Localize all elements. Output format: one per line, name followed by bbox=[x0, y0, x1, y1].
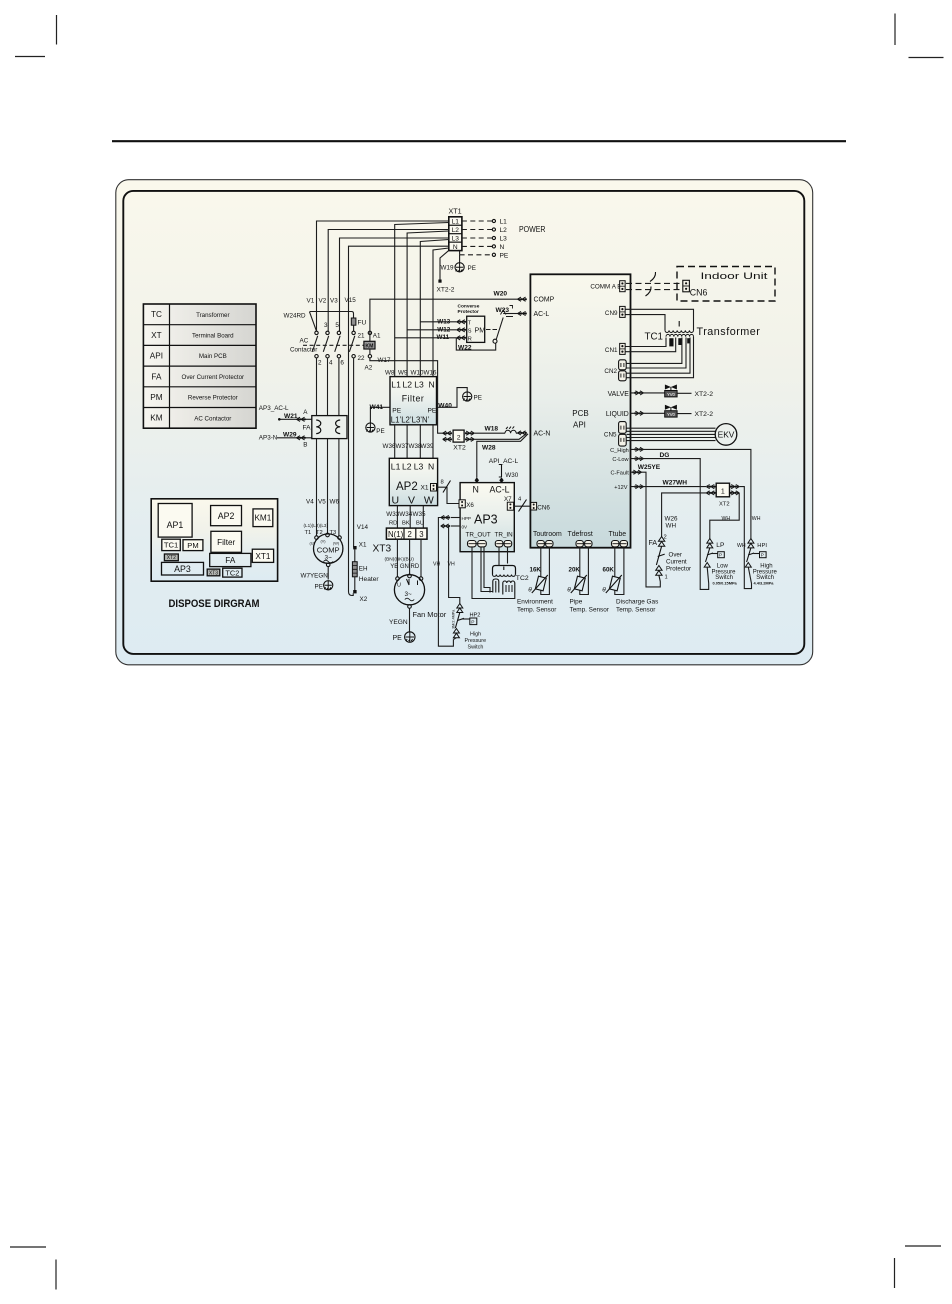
arrows C-Low bbox=[635, 457, 644, 461]
svg-text:HPI: HPI bbox=[757, 543, 767, 549]
svg-text:AP2: AP2 bbox=[218, 511, 235, 521]
svg-text:AP1: AP1 bbox=[167, 520, 184, 530]
connector CN6 on AP1 bbox=[531, 502, 537, 510]
wire fan BU bbox=[420, 539, 422, 577]
wire Tdefrost sensor loop bbox=[580, 547, 589, 595]
wire W21 bbox=[279, 418, 312, 420]
svg-text:API: API bbox=[573, 420, 586, 429]
svg-text:V14: V14 bbox=[357, 524, 369, 531]
thermistor Ttube bbox=[609, 576, 620, 591]
wire C-Fault to FA2 bbox=[630, 472, 660, 587]
svg-text:B: B bbox=[303, 442, 307, 449]
svg-text:L2: L2 bbox=[403, 380, 413, 390]
svg-text:W16: W16 bbox=[424, 370, 437, 377]
svg-text:L1: L1 bbox=[500, 219, 508, 226]
svg-text:N: N bbox=[428, 462, 434, 472]
svg-text:P: P bbox=[719, 553, 722, 558]
wire W23 to AC-L bbox=[503, 313, 517, 315]
wire XT2 to LP top bbox=[710, 493, 740, 539]
connector Ttube bbox=[612, 541, 619, 547]
wires TC1 secondary to CN1 bbox=[626, 338, 667, 347]
switch LP low pressure bbox=[707, 539, 713, 548]
svg-text:Protector: Protector bbox=[458, 309, 479, 315]
svg-text:KM1: KM1 bbox=[254, 514, 271, 523]
svg-text:1: 1 bbox=[665, 575, 668, 581]
svg-text:W24RD: W24RD bbox=[284, 313, 306, 320]
connector CN9 bbox=[620, 306, 626, 317]
svg-text:TR_IN: TR_IN bbox=[495, 532, 514, 539]
plug W30 bbox=[499, 465, 502, 478]
svg-text:XT1: XT1 bbox=[255, 552, 270, 561]
svg-text:XT: XT bbox=[151, 331, 161, 340]
svg-text:W28: W28 bbox=[482, 445, 496, 452]
connector CN6 indoor bbox=[683, 280, 690, 292]
connector X6 bbox=[459, 500, 465, 508]
wire W29 bbox=[277, 437, 312, 439]
svg-text:PE: PE bbox=[474, 395, 482, 402]
svg-text:PM: PM bbox=[187, 541, 198, 550]
arrows +12V bbox=[635, 485, 644, 489]
svg-text:V2: V2 bbox=[319, 298, 327, 305]
svg-text:Temp. Sensor: Temp. Sensor bbox=[570, 606, 610, 613]
wire Toutroom sensor left bbox=[540, 547, 542, 577]
arrows XT2 left pin1 bbox=[443, 431, 452, 435]
svg-text:WH: WH bbox=[666, 523, 677, 530]
svg-text:AP2: AP2 bbox=[396, 481, 418, 493]
arrows XT2 right pin1 bbox=[466, 431, 475, 435]
arrows XT2b out1 bbox=[731, 485, 740, 489]
slash 8 on X1 wire bbox=[443, 481, 451, 493]
svg-text:θ: θ bbox=[602, 587, 606, 594]
svg-text:XT2: XT2 bbox=[719, 501, 730, 507]
wire power L2 dashed bbox=[462, 229, 492, 231]
svg-text:C_High: C_High bbox=[610, 448, 629, 454]
svg-text:XT3: XT3 bbox=[373, 544, 392, 555]
svg-text:API_AC-L: API_AC-L bbox=[489, 458, 519, 465]
motor Fan Motor bbox=[394, 575, 424, 605]
svg-text:TR_OUT: TR_OUT bbox=[466, 532, 491, 539]
wire 0V to high pressure switch bbox=[441, 526, 460, 604]
slash 4 on X7 wire bbox=[519, 500, 527, 512]
over current protector FA2 bbox=[656, 537, 665, 582]
svg-text:AC-N: AC-N bbox=[534, 430, 551, 437]
contactor pole 6 bbox=[337, 331, 340, 334]
svg-text:Main PCB: Main PCB bbox=[199, 353, 227, 360]
svg-text:0.05/0.15MPa: 0.05/0.15MPa bbox=[713, 581, 738, 586]
pin 0V bbox=[441, 524, 450, 528]
dispose AP2 bbox=[211, 506, 242, 526]
svg-text:DG: DG bbox=[660, 452, 670, 459]
svg-text:HPP: HPP bbox=[462, 516, 471, 521]
svg-text:Temp. Sensor: Temp. Sensor bbox=[616, 606, 656, 613]
svg-text:TC1: TC1 bbox=[164, 541, 178, 550]
wire FU-21 bbox=[353, 325, 355, 331]
svg-text:Discharge Gas: Discharge Gas bbox=[616, 598, 658, 605]
svg-text:3: 3 bbox=[324, 322, 328, 329]
svg-text:COMP: COMP bbox=[534, 297, 555, 304]
svg-text:6: 6 bbox=[340, 360, 344, 367]
dispose PM bbox=[183, 540, 203, 551]
arrows XT2 left pin2 bbox=[443, 437, 452, 441]
svg-text:U V W: U V W bbox=[392, 494, 437, 506]
wire W8 L1-filter bbox=[395, 223, 449, 377]
wire power L1 dashed bbox=[462, 220, 492, 222]
wire W34 bbox=[409, 506, 411, 528]
svg-text:4.4/3.2MPa: 4.4/3.2MPa bbox=[754, 581, 775, 586]
wire W22 bbox=[456, 338, 495, 350]
pin diamonds AP3 top bbox=[475, 477, 479, 483]
wire Ttube sensor left bbox=[614, 547, 616, 577]
svg-text:TC2: TC2 bbox=[225, 568, 239, 577]
ground PE filter-right bbox=[463, 392, 472, 401]
svg-text:Tdefrost: Tdefrost bbox=[568, 531, 593, 538]
svg-text:(L1)(L2)(L3): (L1)(L2)(L3) bbox=[304, 523, 329, 528]
svg-text:W8: W8 bbox=[385, 370, 395, 377]
svg-text:Toutroom: Toutroom bbox=[533, 531, 562, 538]
crop mark bottom-right bbox=[895, 1246, 942, 1288]
svg-text:V15: V15 bbox=[345, 297, 357, 304]
svg-text:Protector: Protector bbox=[666, 566, 691, 573]
wire W11 bbox=[395, 337, 457, 339]
connector TR_IN bbox=[495, 541, 503, 547]
svg-text:YE GN RD: YE GN RD bbox=[390, 564, 420, 570]
svg-text:W35: W35 bbox=[413, 511, 426, 518]
wire W39 bbox=[432, 425, 434, 459]
wires TC1 secondary to CN2 bbox=[627, 338, 682, 364]
svg-text:W30: W30 bbox=[505, 472, 518, 479]
wire LIQUID bbox=[630, 412, 691, 414]
svg-text:W20: W20 bbox=[494, 291, 508, 298]
wire COMM A dashed bbox=[626, 282, 683, 284]
thermistor Toutroom bbox=[535, 576, 546, 591]
arrows XT2b in2 bbox=[706, 491, 715, 495]
solenoid liquid YV bbox=[665, 405, 671, 410]
wire compressor PE bbox=[327, 567, 329, 580]
svg-text:2: 2 bbox=[457, 434, 461, 441]
svg-text:PE: PE bbox=[376, 428, 384, 435]
wire XT2 pin2 diagonal bbox=[474, 434, 526, 440]
svg-text:N: N bbox=[500, 244, 505, 251]
wire W10 L3-filter bbox=[420, 240, 449, 377]
pcb AP2 bbox=[389, 458, 437, 505]
svg-text:API: API bbox=[150, 352, 163, 361]
svg-text:S: S bbox=[468, 328, 472, 334]
svg-text:W25YE: W25YE bbox=[638, 464, 661, 471]
wire W18 to AC-N bbox=[474, 432, 517, 434]
wire W37 bbox=[406, 425, 408, 459]
pressure box HP2 bbox=[470, 618, 477, 625]
wire L3 feed bbox=[340, 238, 449, 331]
svg-text:8: 8 bbox=[441, 480, 444, 486]
fuse FU bbox=[351, 318, 356, 325]
inner frame bbox=[123, 191, 804, 654]
svg-text:P: P bbox=[471, 619, 474, 625]
wires phases through FA to compressor bbox=[316, 439, 318, 536]
svg-text:Pressure: Pressure bbox=[465, 638, 487, 644]
svg-text:Terminal Board: Terminal Board bbox=[192, 332, 234, 339]
svg-text:W7YEGN: W7YEGN bbox=[301, 573, 329, 580]
wire L2 feed bbox=[328, 230, 449, 332]
terminal XT2 (2) bbox=[453, 430, 464, 442]
svg-text:CN2: CN2 bbox=[604, 368, 617, 375]
svg-text:L3: L3 bbox=[414, 462, 424, 472]
svg-text:PCB: PCB bbox=[572, 409, 588, 418]
svg-text:PE: PE bbox=[315, 583, 323, 590]
svg-text:(U): (U) bbox=[310, 542, 316, 546]
svg-text:Reverse Protector: Reverse Protector bbox=[188, 395, 238, 402]
dispose FA bbox=[210, 553, 251, 566]
ground PE filter-left bbox=[366, 423, 375, 432]
reverse protector PM bbox=[467, 316, 485, 342]
svg-text:AP3_AC-L: AP3_AC-L bbox=[259, 405, 289, 412]
wire power N dashed bbox=[462, 245, 492, 247]
wires TR_IN to TC2 bbox=[498, 547, 500, 566]
svg-text:Switch: Switch bbox=[468, 645, 484, 651]
wire fan BK bbox=[409, 539, 411, 574]
dispose XT2 bbox=[164, 554, 178, 561]
wire phase 2 down bbox=[316, 358, 318, 416]
svg-text:5: 5 bbox=[335, 322, 339, 329]
svg-text:CN5: CN5 bbox=[604, 431, 617, 438]
svg-text:XT3: XT3 bbox=[209, 570, 218, 576]
contactor coil pin A1 bbox=[368, 331, 371, 334]
svg-text:V5: V5 bbox=[318, 498, 326, 505]
pcb AP3 bbox=[460, 483, 514, 552]
thermistor Tdefrost bbox=[574, 576, 585, 591]
dispose Filter bbox=[211, 531, 242, 552]
svg-text:N: N bbox=[473, 484, 479, 494]
wire W27WH bbox=[630, 486, 706, 488]
svg-text:Heater: Heater bbox=[359, 576, 380, 583]
svg-text:P: P bbox=[761, 553, 764, 558]
node XT2-2 stub bbox=[440, 250, 449, 279]
legend table bbox=[143, 304, 256, 428]
svg-text:VH: VH bbox=[433, 562, 440, 568]
svg-text:W41: W41 bbox=[370, 404, 384, 411]
pressure box HPI bbox=[760, 552, 767, 558]
svg-text:0V: 0V bbox=[462, 524, 469, 529]
svg-text:C-Low: C-Low bbox=[612, 457, 629, 463]
svg-text:VALVE: VALVE bbox=[608, 391, 630, 398]
connector X7 bbox=[507, 502, 513, 510]
wire power L3 dashed bbox=[462, 237, 492, 239]
svg-text:21: 21 bbox=[358, 333, 366, 340]
wire fan PE bbox=[409, 608, 411, 631]
contactor pole 2 bbox=[315, 331, 318, 334]
svg-text:EH: EH bbox=[359, 565, 368, 572]
svg-text:CN6: CN6 bbox=[690, 287, 708, 297]
svg-text:3~: 3~ bbox=[405, 591, 413, 598]
svg-text:Filter: Filter bbox=[402, 394, 425, 404]
svg-text:L2: L2 bbox=[452, 227, 460, 234]
switch HP2 high pressure bbox=[457, 604, 463, 609]
svg-text:BU: BU bbox=[416, 520, 424, 526]
wire W38 bbox=[419, 425, 421, 459]
wire V14 22-X1 bbox=[353, 358, 355, 548]
svg-text:L1: L1 bbox=[391, 380, 401, 390]
svg-text:Transformer: Transformer bbox=[196, 312, 229, 319]
svg-text:W27WH: W27WH bbox=[663, 479, 688, 486]
svg-text:PE: PE bbox=[428, 408, 437, 415]
svg-text:FA: FA bbox=[225, 556, 236, 565]
connector TR_OUT bbox=[468, 541, 477, 547]
svg-text:AC-L: AC-L bbox=[490, 484, 510, 494]
svg-text:EKV: EKV bbox=[718, 430, 735, 440]
svg-text:W33: W33 bbox=[386, 511, 399, 518]
svg-text:AC Contactor: AC Contactor bbox=[194, 415, 231, 422]
svg-text:CN9: CN9 bbox=[605, 310, 618, 317]
svg-text:2: 2 bbox=[408, 530, 412, 539]
wire W40 bbox=[437, 388, 468, 408]
terminal XT2 right bbox=[716, 483, 729, 497]
svg-text:COMM A B: COMM A B bbox=[590, 284, 621, 291]
svg-text:XT2-2: XT2-2 bbox=[695, 391, 714, 398]
wire phase 6 down bbox=[338, 358, 340, 416]
svg-text:VH: VH bbox=[448, 562, 455, 568]
break marks on COMM wires bbox=[646, 272, 656, 296]
crop mark bottom-left bbox=[10, 1247, 56, 1290]
arrows LIQUID bbox=[635, 411, 644, 415]
wire W35 bbox=[422, 506, 424, 528]
svg-text:WH: WH bbox=[737, 543, 746, 549]
wire XT2 to HPI bottom bbox=[739, 487, 751, 589]
svg-text:N(1): N(1) bbox=[388, 530, 404, 539]
svg-text:YEGN: YEGN bbox=[389, 619, 408, 626]
wire HPP to high pressure switch bbox=[438, 518, 453, 647]
svg-text:22: 22 bbox=[358, 355, 366, 362]
terminal N bbox=[492, 245, 495, 248]
arrows XT2b out2 bbox=[731, 491, 740, 495]
svg-text:Fan Motor: Fan Motor bbox=[413, 610, 447, 619]
svg-text:FA: FA bbox=[303, 425, 312, 432]
svg-text:W26: W26 bbox=[665, 516, 678, 523]
contactor contact 21-22 bbox=[352, 331, 355, 334]
wire VALVE bbox=[630, 392, 691, 394]
svg-text:3: 3 bbox=[419, 530, 423, 539]
svg-text:W40: W40 bbox=[438, 403, 452, 410]
svg-text:FA: FA bbox=[649, 540, 658, 547]
svg-text:L3: L3 bbox=[452, 236, 460, 243]
svg-text:Temp. Sensor: Temp. Sensor bbox=[517, 606, 557, 613]
over current protector FA bbox=[312, 416, 347, 439]
dispose XT1 bbox=[252, 549, 273, 562]
svg-text:CN1: CN1 bbox=[605, 347, 618, 354]
filter box bbox=[390, 377, 437, 425]
svg-text:W36: W36 bbox=[383, 443, 396, 450]
wire V15 neutral bbox=[349, 246, 449, 591]
arrows VALVE bbox=[635, 391, 644, 395]
svg-text:X6: X6 bbox=[466, 502, 474, 509]
dispose TC1 bbox=[162, 539, 181, 550]
svg-text:θ: θ bbox=[567, 587, 571, 594]
svg-text:YV0: YV0 bbox=[667, 392, 676, 397]
svg-text:KM: KM bbox=[150, 414, 162, 423]
svg-text:PE: PE bbox=[500, 252, 509, 259]
svg-text:N: N bbox=[429, 380, 435, 390]
svg-text:High: High bbox=[470, 632, 481, 638]
svg-text:AP3-N: AP3-N bbox=[259, 435, 278, 442]
wire W28 AP3-N to AC-N bbox=[477, 434, 528, 478]
wire A2 to XT2-2 terminal bbox=[370, 358, 443, 433]
svg-text:Current: Current bbox=[666, 559, 687, 566]
svg-text:XT2-2: XT2-2 bbox=[695, 411, 714, 418]
ground compressor PE bbox=[324, 581, 333, 590]
svg-text:W19: W19 bbox=[441, 265, 454, 272]
heater EH bbox=[354, 549, 356, 561]
wire W13 bbox=[420, 321, 456, 323]
svg-text:XT2-2: XT2-2 bbox=[437, 287, 455, 294]
svg-text:L1’L2’L3’N’: L1’L2’L3’N’ bbox=[391, 415, 430, 424]
svg-text:PE: PE bbox=[393, 635, 403, 642]
svg-text:COMP: COMP bbox=[317, 546, 340, 555]
svg-text:FU: FU bbox=[358, 320, 367, 327]
svg-text:V1: V1 bbox=[307, 298, 315, 305]
dispose AP1 bbox=[158, 504, 192, 538]
svg-text:Indoor Unit: Indoor Unit bbox=[701, 271, 769, 281]
arrows XT2b in1 bbox=[706, 485, 715, 489]
svg-text:L1: L1 bbox=[391, 462, 401, 472]
svg-text:TC1: TC1 bbox=[645, 332, 664, 343]
wire W41 bbox=[370, 407, 390, 423]
connector CN5 bbox=[619, 422, 627, 434]
svg-text:Over: Over bbox=[669, 552, 682, 559]
svg-text:YV0: YV0 bbox=[667, 412, 676, 417]
svg-text:Ttube: Ttube bbox=[609, 531, 627, 538]
transformer TC2 bbox=[493, 566, 516, 575]
svg-text:BK: BK bbox=[402, 520, 410, 526]
indoor unit box bbox=[677, 267, 775, 302]
contactor dashed link bbox=[303, 344, 369, 346]
svg-text:PE: PE bbox=[392, 408, 401, 415]
terminal L2 bbox=[492, 228, 495, 231]
svg-text:W34: W34 bbox=[399, 511, 412, 518]
wire W16 N-filter bbox=[433, 248, 449, 377]
wire V15 to X2 bbox=[349, 592, 354, 596]
svg-text:WH: WH bbox=[752, 516, 761, 522]
terminal block XT3 bbox=[386, 528, 427, 539]
svg-text:Converse: Converse bbox=[458, 303, 480, 309]
svg-text:X2: X2 bbox=[360, 596, 368, 603]
wires TR_OUT to TC2 bbox=[472, 547, 515, 599]
svg-text:3M/2.4MPa: 3M/2.4MPa bbox=[451, 609, 455, 629]
arrows C_High bbox=[635, 447, 644, 451]
svg-text:XT1: XT1 bbox=[449, 207, 462, 216]
terminal block XT1 bbox=[449, 217, 462, 251]
dispose XT3 bbox=[207, 569, 220, 576]
wire Toutroom sensor loop bbox=[541, 547, 550, 595]
svg-text:V3: V3 bbox=[330, 298, 338, 305]
svg-text:1: 1 bbox=[721, 489, 725, 496]
ground fan PE bbox=[405, 632, 415, 642]
pressure box LP bbox=[718, 552, 725, 558]
wire FA2 to XT2 terminal bbox=[662, 493, 706, 537]
connector CN2 bbox=[619, 360, 627, 370]
svg-text:W6: W6 bbox=[330, 498, 340, 505]
wire phase 4 down bbox=[327, 358, 329, 416]
dispose diagram box bbox=[151, 499, 277, 581]
wire A1 coil W20 to COMP bbox=[370, 299, 518, 331]
svg-text:KM: KM bbox=[365, 343, 373, 349]
dispose AP3 bbox=[162, 562, 204, 575]
svg-text:C-Fault: C-Fault bbox=[610, 471, 629, 477]
svg-text:Filter: Filter bbox=[217, 538, 235, 547]
fan earth terminal bbox=[408, 605, 412, 609]
svg-text:FA: FA bbox=[151, 372, 162, 381]
dispose KM1 bbox=[253, 509, 273, 527]
svg-text:20K: 20K bbox=[569, 567, 581, 574]
svg-text:2: 2 bbox=[318, 360, 322, 367]
wire C-Low to LP bbox=[630, 459, 708, 590]
